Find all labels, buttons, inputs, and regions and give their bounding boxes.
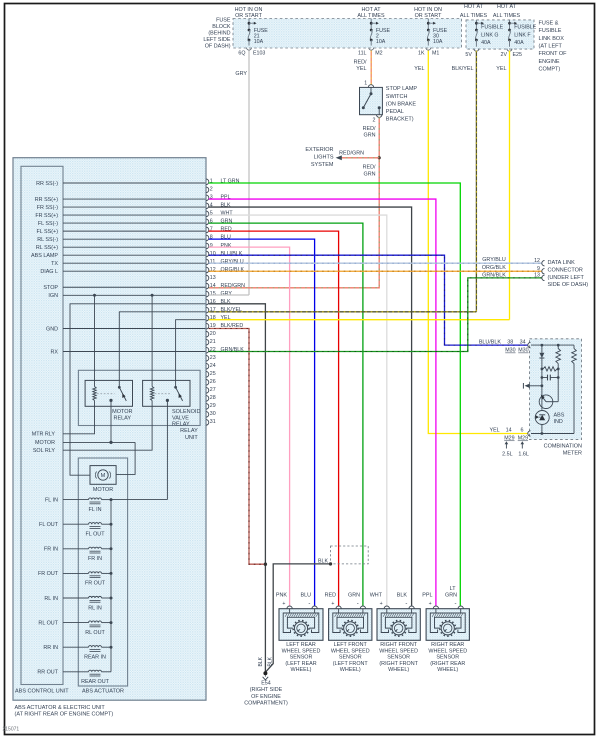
svg-text:BLK: BLK	[267, 656, 273, 666]
svg-text:HOT AT: HOT AT	[497, 4, 517, 10]
svg-text:(LEFT REAR: (LEFT REAR	[285, 661, 316, 667]
svg-text:ABS ACTUATOR & ELECTRIC UNIT: ABS ACTUATOR & ELECTRIC UNIT	[15, 705, 106, 711]
svg-text:RED: RED	[221, 227, 232, 233]
svg-text:EXTERIOR: EXTERIOR	[305, 147, 333, 153]
svg-text:FR SS(-): FR SS(-)	[37, 205, 58, 211]
svg-text:WHEEL): WHEEL)	[340, 667, 361, 673]
svg-text:LINK BOX: LINK BOX	[539, 36, 565, 42]
svg-text:IND: IND	[554, 419, 563, 425]
svg-text:215071: 215071	[3, 727, 20, 733]
svg-text:31: 31	[210, 419, 216, 425]
svg-text:ABS: ABS	[554, 412, 565, 418]
svg-text:MOTOR: MOTOR	[112, 409, 132, 415]
svg-text:10: 10	[210, 251, 216, 257]
svg-text:SOLENOID: SOLENOID	[172, 409, 200, 415]
svg-text:13: 13	[534, 273, 540, 279]
svg-text:RED/GRN: RED/GRN	[221, 283, 246, 289]
svg-text:BRACKET): BRACKET)	[386, 117, 414, 123]
svg-text:2: 2	[210, 187, 213, 193]
svg-text:6: 6	[521, 428, 524, 434]
svg-text:E54: E54	[261, 681, 271, 687]
svg-text:OF DASH): OF DASH)	[205, 44, 231, 50]
svg-text:FL OUT: FL OUT	[39, 522, 59, 528]
svg-text:M2: M2	[375, 51, 382, 57]
svg-text:FRONT OF: FRONT OF	[539, 51, 568, 57]
svg-text:RELAY: RELAY	[180, 428, 198, 434]
svg-text:WHT: WHT	[370, 593, 383, 599]
svg-text:BLK/YEL: BLK/YEL	[452, 66, 474, 72]
svg-text:FL IN: FL IN	[45, 497, 58, 503]
svg-text:ABS LAMP: ABS LAMP	[31, 253, 58, 259]
svg-text:YEL: YEL	[496, 66, 506, 72]
svg-text:-: -	[405, 601, 407, 607]
svg-text:40A: 40A	[514, 40, 524, 46]
svg-text:BLK: BLK	[258, 656, 264, 666]
svg-text:LT GRN: LT GRN	[221, 179, 240, 185]
svg-text:11L: 11L	[358, 51, 366, 57]
svg-text:1K: 1K	[418, 51, 425, 57]
svg-text:RIGHT FRONT: RIGHT FRONT	[380, 642, 417, 648]
svg-text:STOP LAMP: STOP LAMP	[386, 86, 418, 92]
svg-text:(UNDER LEFT: (UNDER LEFT	[548, 275, 585, 281]
svg-text:(AT RIGHT REAR OF ENGINE COMPT: (AT RIGHT REAR OF ENGINE COMPT)	[15, 712, 114, 718]
svg-text:BLK: BLK	[318, 558, 328, 564]
svg-text:GRY/BLU: GRY/BLU	[482, 257, 506, 263]
svg-text:RR IN: RR IN	[43, 645, 58, 651]
svg-text:ABS ACTUATOR: ABS ACTUATOR	[82, 689, 124, 695]
svg-text:OR START: OR START	[415, 13, 442, 19]
svg-text:YEL: YEL	[414, 66, 424, 72]
svg-text:FL SS(+): FL SS(+)	[36, 229, 58, 235]
svg-text:M29: M29	[518, 436, 528, 442]
svg-text:GRY: GRY	[221, 291, 233, 297]
svg-text:RED: RED	[325, 593, 336, 599]
svg-text:LEFT SIDE: LEFT SIDE	[203, 37, 231, 43]
svg-text:14: 14	[506, 428, 512, 434]
svg-text:COMPT): COMPT)	[539, 67, 561, 73]
svg-text:YEL: YEL	[489, 428, 499, 434]
svg-text:GRN: GRN	[348, 593, 360, 599]
svg-text:27: 27	[210, 387, 216, 393]
svg-text:10A: 10A	[254, 39, 264, 45]
svg-text:+: +	[380, 601, 383, 607]
svg-text:COMBINATION: COMBINATION	[544, 443, 582, 449]
svg-text:GRY/BLU: GRY/BLU	[221, 259, 244, 265]
svg-text:RIGHT REAR: RIGHT REAR	[431, 642, 464, 648]
svg-text:13: 13	[210, 275, 216, 281]
svg-text:(LEFT FRONT: (LEFT FRONT	[333, 661, 369, 667]
svg-text:24: 24	[210, 363, 216, 369]
svg-text:28: 28	[210, 395, 216, 401]
svg-text:FL IN: FL IN	[89, 507, 102, 513]
svg-text:RR SS(-): RR SS(-)	[36, 181, 58, 187]
svg-text:STOP: STOP	[43, 285, 58, 291]
svg-text:(RIGHT SIDE: (RIGHT SIDE	[250, 687, 283, 693]
svg-text:12: 12	[210, 267, 216, 273]
svg-text:M1: M1	[432, 51, 439, 57]
svg-text:1: 1	[364, 81, 367, 87]
svg-text:21: 21	[210, 339, 216, 345]
svg-text:40A: 40A	[481, 40, 491, 46]
svg-text:RL SS(-): RL SS(-)	[37, 237, 58, 243]
svg-text:BLU: BLU	[301, 593, 312, 599]
svg-text:LINK G: LINK G	[481, 32, 498, 38]
svg-text:FUSE: FUSE	[216, 17, 231, 23]
svg-text:ALL TIMES: ALL TIMES	[460, 13, 488, 19]
svg-text:4: 4	[210, 203, 213, 209]
svg-text:2.5L: 2.5L	[502, 452, 513, 458]
svg-text:29: 29	[210, 403, 216, 409]
svg-text:GRN: GRN	[364, 133, 376, 139]
svg-text:RL IN: RL IN	[88, 605, 102, 611]
svg-text:RL OUT: RL OUT	[85, 630, 105, 636]
svg-text:20: 20	[210, 331, 216, 337]
svg-text:PPL: PPL	[422, 593, 432, 599]
svg-text:(RIGHT REAR: (RIGHT REAR	[430, 661, 465, 667]
svg-text:6Q: 6Q	[238, 51, 245, 57]
svg-text:BLOCK: BLOCK	[212, 24, 231, 30]
svg-text:8: 8	[210, 235, 213, 241]
svg-text:WHEEL): WHEEL)	[291, 667, 312, 673]
svg-text:+: +	[331, 601, 334, 607]
svg-text:WHEEL): WHEEL)	[437, 667, 458, 673]
svg-text:SIDE OF DASH): SIDE OF DASH)	[548, 282, 589, 288]
svg-text:ALL TIMES: ALL TIMES	[357, 13, 385, 19]
svg-text:HOT AT: HOT AT	[464, 4, 484, 10]
svg-text:15: 15	[210, 291, 216, 297]
svg-text:+: +	[282, 601, 285, 607]
svg-text:WHT: WHT	[221, 211, 234, 217]
svg-text:GND: GND	[46, 326, 58, 332]
svg-text:M30: M30	[518, 348, 528, 354]
svg-text:BLU: BLU	[221, 235, 231, 241]
svg-text:M29: M29	[504, 436, 514, 442]
svg-text:7: 7	[210, 227, 213, 233]
svg-text:PEDAL: PEDAL	[386, 109, 404, 115]
svg-text:10A: 10A	[376, 39, 386, 45]
svg-text:PNK: PNK	[221, 243, 232, 249]
svg-text:(BEHIND: (BEHIND	[208, 30, 230, 36]
svg-text:WHEEL): WHEEL)	[388, 667, 409, 673]
svg-text:DATA LINK: DATA LINK	[548, 260, 576, 266]
svg-text:LEFT REAR: LEFT REAR	[286, 642, 316, 648]
svg-text:SENSOR: SENSOR	[387, 655, 410, 661]
svg-text:RR OUT: RR OUT	[37, 670, 58, 676]
svg-text:WHEEL SPEED: WHEEL SPEED	[282, 648, 321, 654]
svg-text:UNIT: UNIT	[185, 435, 198, 441]
svg-text:GRN: GRN	[364, 171, 376, 177]
svg-text:ABS CONTROL UNIT: ABS CONTROL UNIT	[15, 689, 69, 695]
svg-text:GRN/BLK: GRN/BLK	[482, 273, 506, 279]
svg-text:RELAY: RELAY	[113, 416, 131, 422]
svg-text:WHEEL SPEED: WHEEL SPEED	[379, 648, 418, 654]
svg-text:RL SS(+): RL SS(+)	[36, 245, 58, 251]
svg-text:REAR OUT: REAR OUT	[81, 679, 110, 685]
svg-text:REAR IN: REAR IN	[84, 655, 106, 661]
svg-text:SOL RLY: SOL RLY	[33, 448, 56, 454]
svg-text:FUSE &: FUSE &	[539, 20, 559, 26]
svg-text:FR IN: FR IN	[88, 556, 102, 562]
svg-text:DIAG L: DIAG L	[40, 269, 58, 275]
svg-text:WHEEL SPEED: WHEEL SPEED	[331, 648, 370, 654]
svg-text:25: 25	[210, 371, 216, 377]
svg-text:14: 14	[210, 283, 216, 289]
svg-text:M30: M30	[505, 348, 515, 354]
svg-text:FUSIBLE: FUSIBLE	[481, 25, 504, 31]
svg-text:LINK F: LINK F	[514, 32, 531, 38]
svg-text:FUSIBLE: FUSIBLE	[514, 25, 537, 31]
svg-text:SENSOR: SENSOR	[290, 655, 313, 661]
svg-text:FL OUT: FL OUT	[86, 532, 106, 538]
svg-text:5: 5	[210, 211, 213, 217]
svg-text:METER: METER	[563, 450, 582, 456]
svg-text:5V: 5V	[465, 52, 472, 58]
svg-text:-: -	[455, 601, 457, 607]
svg-text:6: 6	[210, 219, 213, 225]
svg-text:SENSOR: SENSOR	[339, 655, 362, 661]
svg-text:ORG/BLK: ORG/BLK	[482, 265, 506, 271]
svg-text:BLK: BLK	[397, 593, 408, 599]
svg-text:34: 34	[520, 339, 526, 345]
svg-text:SENSOR: SENSOR	[436, 655, 459, 661]
svg-text:-: -	[308, 601, 310, 607]
svg-text:1.6L: 1.6L	[518, 452, 529, 458]
svg-text:OR START: OR START	[235, 13, 262, 19]
svg-text:(AT LEFT: (AT LEFT	[539, 44, 563, 50]
svg-text:SYSTEM: SYSTEM	[311, 162, 334, 168]
svg-text:PPL: PPL	[221, 195, 231, 201]
svg-text:ORG/BLK: ORG/BLK	[221, 267, 245, 273]
svg-text:LEFT FRONT: LEFT FRONT	[334, 642, 368, 648]
svg-text:(ON BRAKE: (ON BRAKE	[386, 101, 417, 107]
svg-text:MOTOR: MOTOR	[35, 440, 55, 446]
svg-text:BLK: BLK	[221, 203, 231, 209]
svg-text:9: 9	[537, 266, 540, 272]
svg-text:E25: E25	[513, 52, 522, 58]
svg-text:(RIGHT FRONT: (RIGHT FRONT	[379, 661, 418, 667]
svg-text:1: 1	[210, 179, 213, 185]
svg-text:LT: LT	[450, 586, 457, 592]
svg-text:-: -	[357, 601, 359, 607]
svg-text:23: 23	[210, 355, 216, 361]
svg-text:MTR RLY: MTR RLY	[32, 432, 56, 438]
svg-text:RR SS(+): RR SS(+)	[35, 197, 58, 203]
svg-text:RL IN: RL IN	[44, 596, 58, 602]
svg-text:RED/GRN: RED/GRN	[339, 150, 364, 156]
svg-text:BLU/BLK: BLU/BLK	[221, 251, 243, 257]
svg-text:RED/: RED/	[363, 165, 376, 171]
svg-text:ALL TIMES: ALL TIMES	[493, 13, 521, 19]
svg-text:RED/: RED/	[363, 126, 376, 132]
svg-text:OF ENGINE: OF ENGINE	[251, 694, 281, 700]
svg-text:GRN: GRN	[221, 219, 233, 225]
svg-text:30: 30	[210, 411, 216, 417]
svg-text:FL SS(-): FL SS(-)	[38, 221, 58, 227]
svg-text:FR SS(+): FR SS(+)	[35, 213, 58, 219]
svg-text:LIGHTS: LIGHTS	[314, 155, 334, 161]
svg-text:3: 3	[210, 195, 213, 201]
svg-text:PNK: PNK	[276, 593, 287, 599]
svg-text:WHEEL SPEED: WHEEL SPEED	[428, 648, 467, 654]
svg-text:+: +	[429, 601, 432, 607]
svg-text:2: 2	[372, 118, 375, 124]
svg-text:11: 11	[210, 259, 216, 265]
svg-text:MOTOR: MOTOR	[93, 487, 113, 493]
svg-text:YEL: YEL	[356, 66, 366, 72]
svg-text:RX: RX	[51, 349, 59, 355]
svg-text:COMPARTMENT): COMPARTMENT)	[244, 701, 288, 707]
svg-text:GRY: GRY	[235, 71, 247, 77]
svg-text:BLU/BLK: BLU/BLK	[479, 339, 502, 345]
svg-text:E103: E103	[253, 51, 265, 57]
svg-text:38: 38	[507, 339, 513, 345]
svg-text:GRN: GRN	[445, 593, 457, 599]
svg-text:TX: TX	[51, 261, 58, 267]
svg-text:RL OUT: RL OUT	[38, 620, 58, 626]
svg-text:RELAY: RELAY	[172, 422, 190, 428]
svg-text:M: M	[101, 473, 106, 479]
svg-text:FUSIBLE: FUSIBLE	[539, 28, 562, 34]
svg-text:FR IN: FR IN	[44, 547, 58, 553]
svg-text:ENGINE: ENGINE	[539, 59, 560, 65]
svg-text:12: 12	[534, 258, 540, 264]
svg-text:FR OUT: FR OUT	[38, 571, 59, 577]
svg-text:9: 9	[210, 243, 213, 249]
svg-text:CONNECTOR: CONNECTOR	[548, 268, 583, 274]
svg-text:IGN: IGN	[48, 293, 58, 299]
svg-text:FR OUT: FR OUT	[85, 581, 106, 587]
svg-text:10A: 10A	[433, 39, 443, 45]
svg-text:26: 26	[210, 379, 216, 385]
svg-text:RED/: RED/	[354, 59, 367, 65]
svg-text:SWITCH: SWITCH	[386, 94, 408, 100]
svg-text:2V: 2V	[501, 52, 508, 58]
